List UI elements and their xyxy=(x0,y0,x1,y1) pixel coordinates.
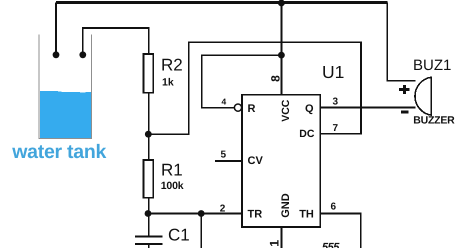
wire: R1 bottom to junction xyxy=(148,198,150,214)
wire: C1 top lead xyxy=(148,214,150,237)
label R1 xyxy=(161,161,183,180)
pin name DC xyxy=(299,128,315,140)
wire: R2 bottom to junction xyxy=(148,93,150,134)
svg-text:5: 5 xyxy=(221,150,227,161)
wire: left probe drop xyxy=(55,3,57,55)
pin name Q xyxy=(305,103,314,115)
svg-text:water tank: water tank xyxy=(11,141,106,163)
pin name TR xyxy=(248,208,263,220)
svg-text:C1: C1 xyxy=(168,225,190,244)
svg-text:4: 4 xyxy=(222,97,227,107)
svg-text:8: 8 xyxy=(268,75,282,82)
water tank walls xyxy=(39,35,92,139)
value 1k xyxy=(162,76,174,88)
pin number 7 xyxy=(333,123,339,134)
svg-text:R2: R2 xyxy=(161,56,183,75)
pin name CV xyxy=(248,155,264,167)
svg-text:100k: 100k xyxy=(161,180,184,192)
pin name VCC (rotated) xyxy=(280,99,292,122)
label U1 xyxy=(322,62,344,82)
label R2 xyxy=(161,56,183,75)
wire: GND pin 1 down xyxy=(281,227,283,248)
svg-text:R: R xyxy=(248,103,256,115)
svg-text:BUZ1: BUZ1 xyxy=(413,57,451,74)
pin number 5 xyxy=(221,150,227,161)
svg-text:7: 7 xyxy=(333,123,339,134)
wire: TH pin 6 down xyxy=(320,214,360,248)
label BUZZER xyxy=(413,115,455,127)
wire: CV pin 5 stub xyxy=(215,160,242,162)
svg-text:555: 555 xyxy=(322,242,340,248)
svg-text:2: 2 xyxy=(220,204,226,215)
node: TR branch junction xyxy=(198,210,205,217)
wire: branch down from TR junction xyxy=(200,214,202,248)
svg-text:BUZZER: BUZZER xyxy=(413,115,455,127)
pin name R xyxy=(248,103,256,115)
svg-text:6: 6 xyxy=(331,202,337,213)
svg-text:R1: R1 xyxy=(161,161,183,180)
wire: R1 top lead xyxy=(148,134,150,160)
svg-text:U1: U1 xyxy=(322,62,344,82)
buzzer plus sign xyxy=(399,85,410,94)
svg-text:1: 1 xyxy=(268,240,282,247)
node: reset/VCC junction xyxy=(278,52,285,59)
wire: right probe to R2 top xyxy=(83,28,149,55)
svg-text:VCC: VCC xyxy=(280,99,292,122)
buzzer minus sign xyxy=(401,111,409,114)
pin name TH xyxy=(299,208,314,220)
svg-text:TH: TH xyxy=(299,208,314,220)
svg-text:GND: GND xyxy=(280,193,292,218)
node: right probe electrode xyxy=(79,51,86,58)
capacitor C1 xyxy=(135,236,163,244)
wire: sense to pin 7 (over the top) xyxy=(149,42,361,134)
svg-text:3: 3 xyxy=(333,97,339,108)
pin number 2 xyxy=(220,204,226,215)
pin 4 inverting bubble xyxy=(234,104,241,111)
pin number 6 xyxy=(331,202,337,213)
node: VCC rail junction xyxy=(278,0,285,6)
label C1 xyxy=(168,225,190,244)
node: left probe electrode xyxy=(53,51,60,58)
svg-text:Q: Q xyxy=(305,103,314,115)
label: water tank xyxy=(11,141,106,163)
resistor R1 xyxy=(144,160,154,198)
wire: +V top rail xyxy=(56,1,388,4)
wire: VCC pin 8 drop xyxy=(280,3,282,95)
svg-text:DC: DC xyxy=(299,128,315,140)
svg-text:CV: CV xyxy=(248,155,264,167)
wire: reset pin 4 loop xyxy=(202,55,282,108)
pin number 8 (rotated) xyxy=(268,75,282,82)
op-amp: IC body U1 (555 timer) xyxy=(242,95,320,227)
label BUZ1 xyxy=(413,57,451,74)
pin name GND (rotated) xyxy=(280,193,292,218)
pin number 1 (rotated) xyxy=(268,240,282,247)
resistor R2 xyxy=(144,54,154,93)
pin number 4 xyxy=(222,97,227,107)
node: R1/C1/TR junction xyxy=(145,210,152,217)
pin number 3 xyxy=(333,97,339,108)
wire: Q pin 3 to buzzer minus xyxy=(320,107,415,109)
wire: junction to TR pin 2 xyxy=(148,213,242,215)
water fill xyxy=(40,91,91,138)
part number 555 xyxy=(322,242,340,248)
svg-text:TR: TR xyxy=(248,208,263,220)
svg-text:1k: 1k xyxy=(162,76,174,88)
node: R2/R1/sense junction xyxy=(145,131,152,138)
value 100k xyxy=(161,180,184,192)
buzzer BUZ1 symbol xyxy=(415,77,431,115)
wire: C1 bottom stub xyxy=(148,244,150,248)
wire: rail to buzzer plus xyxy=(387,3,415,81)
